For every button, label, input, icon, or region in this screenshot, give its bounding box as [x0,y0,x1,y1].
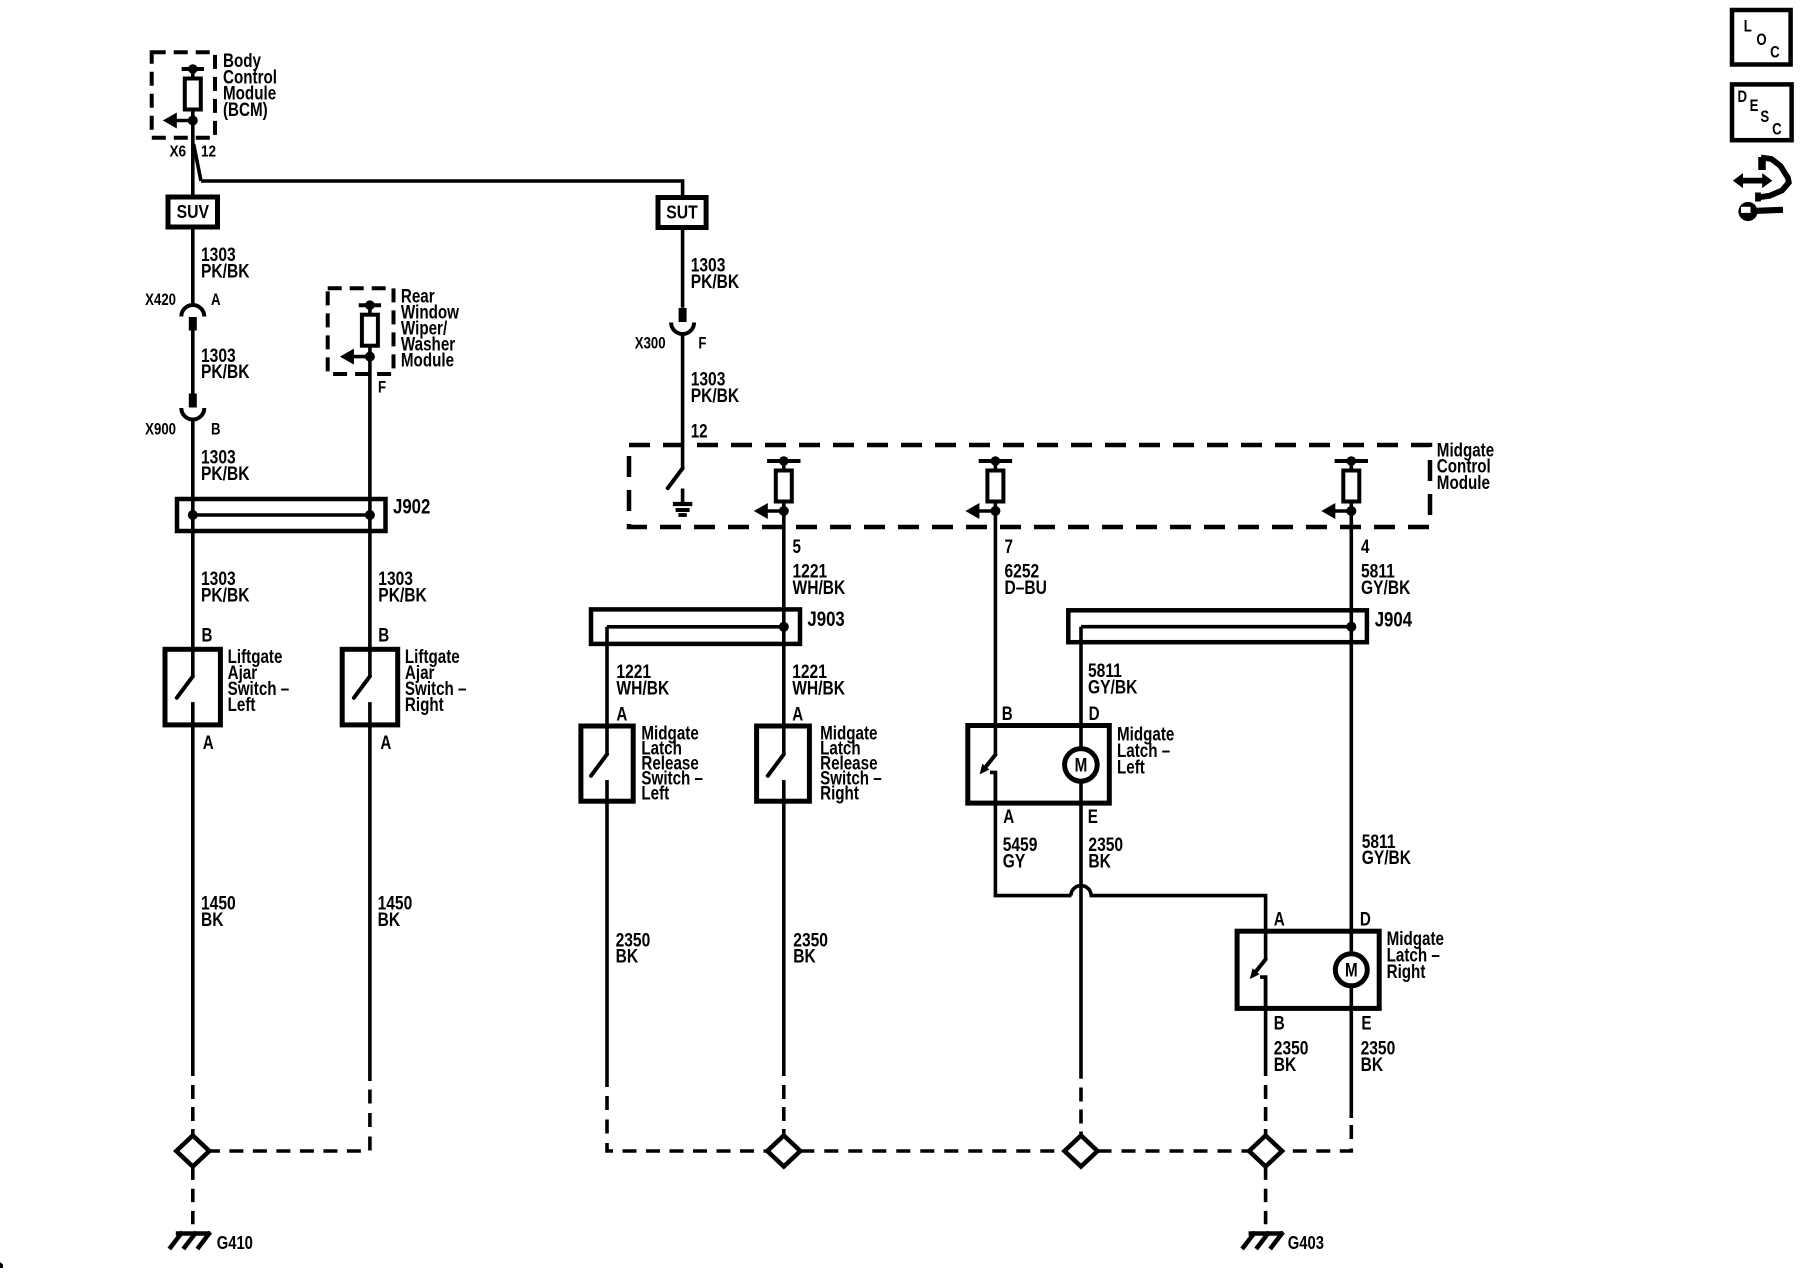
svg-text:Left: Left [1117,756,1145,778]
svg-text:M: M [1345,959,1358,981]
svg-text:Right: Right [405,693,444,715]
svg-text:SUT: SUT [666,201,698,223]
svg-text:F: F [378,378,386,397]
svg-text:5: 5 [793,535,802,557]
svg-text:J904: J904 [1375,609,1413,632]
svg-text:C: C [1772,120,1782,139]
svg-text:J903: J903 [807,608,844,631]
svg-text:B: B [211,420,221,439]
svg-text:7: 7 [1005,535,1013,557]
svg-text:WH/BK: WH/BK [616,677,669,699]
svg-text:PK/BK: PK/BK [691,384,740,406]
svg-text:J902: J902 [393,496,430,519]
svg-text:D: D [1360,908,1371,930]
svg-text:PK/BK: PK/BK [378,584,427,606]
svg-text:Left: Left [641,782,669,804]
svg-text:SUV: SUV [177,201,210,223]
svg-text:GY/BK: GY/BK [1088,676,1138,698]
svg-text:E: E [1361,1012,1371,1034]
svg-text:WH/BK: WH/BK [793,576,846,598]
svg-text:PK/BK: PK/BK [201,260,250,282]
svg-text:PK/BK: PK/BK [201,361,250,383]
svg-text:D: D [1738,88,1748,107]
svg-text:L: L [1744,17,1752,36]
svg-text:E: E [1750,97,1759,116]
svg-text:C: C [1770,43,1780,62]
svg-text:B: B [202,624,213,646]
svg-text:A: A [380,731,391,753]
svg-text:D–BU: D–BU [1005,576,1047,598]
svg-text:F: F [698,334,706,353]
svg-text:X420: X420 [145,291,176,310]
svg-text:Right: Right [1387,960,1426,982]
svg-text:WH/BK: WH/BK [792,677,845,699]
svg-text:G403: G403 [1288,1232,1324,1253]
svg-text:PK/BK: PK/BK [691,270,740,292]
svg-text:X900: X900 [145,420,176,439]
svg-text:PK/BK: PK/BK [201,462,250,484]
svg-text:Module: Module [401,349,454,371]
svg-text:A: A [203,731,214,753]
svg-text:D: D [1089,702,1100,724]
svg-text:BK: BK [1361,1053,1384,1075]
svg-text:Right: Right [820,782,859,804]
svg-text:BK: BK [1274,1053,1297,1075]
svg-text:X6: X6 [169,144,186,161]
svg-text:GY: GY [1003,850,1026,872]
svg-text:A: A [211,291,221,310]
svg-text:(BCM): (BCM) [223,98,268,120]
svg-text:A: A [792,703,803,725]
svg-text:B: B [1002,702,1013,724]
svg-text:X300: X300 [635,334,666,353]
svg-text:GY/BK: GY/BK [1361,576,1411,598]
svg-text:BK: BK [1088,850,1111,872]
svg-text:PK/BK: PK/BK [201,584,250,606]
svg-text:BK: BK [201,908,224,930]
svg-text:G410: G410 [217,1232,253,1253]
svg-text:12: 12 [691,420,708,442]
svg-text:BK: BK [378,908,401,930]
svg-text:Module: Module [1437,471,1490,493]
svg-text:BK: BK [793,945,816,967]
svg-text:Left: Left [228,693,256,715]
svg-text:12: 12 [201,144,216,161]
svg-text:A: A [1274,908,1285,930]
svg-text:O: O [1756,31,1766,50]
svg-text:BK: BK [616,945,639,967]
svg-text:GY/BK: GY/BK [1362,847,1412,869]
svg-text:E: E [1088,805,1098,827]
svg-text:M: M [1075,754,1088,776]
svg-text:A: A [616,703,627,725]
svg-text:B: B [1274,1012,1285,1034]
svg-text:B: B [378,624,389,646]
svg-text:4: 4 [1361,535,1370,557]
svg-text:A: A [1003,805,1014,827]
svg-text:S: S [1760,107,1769,126]
